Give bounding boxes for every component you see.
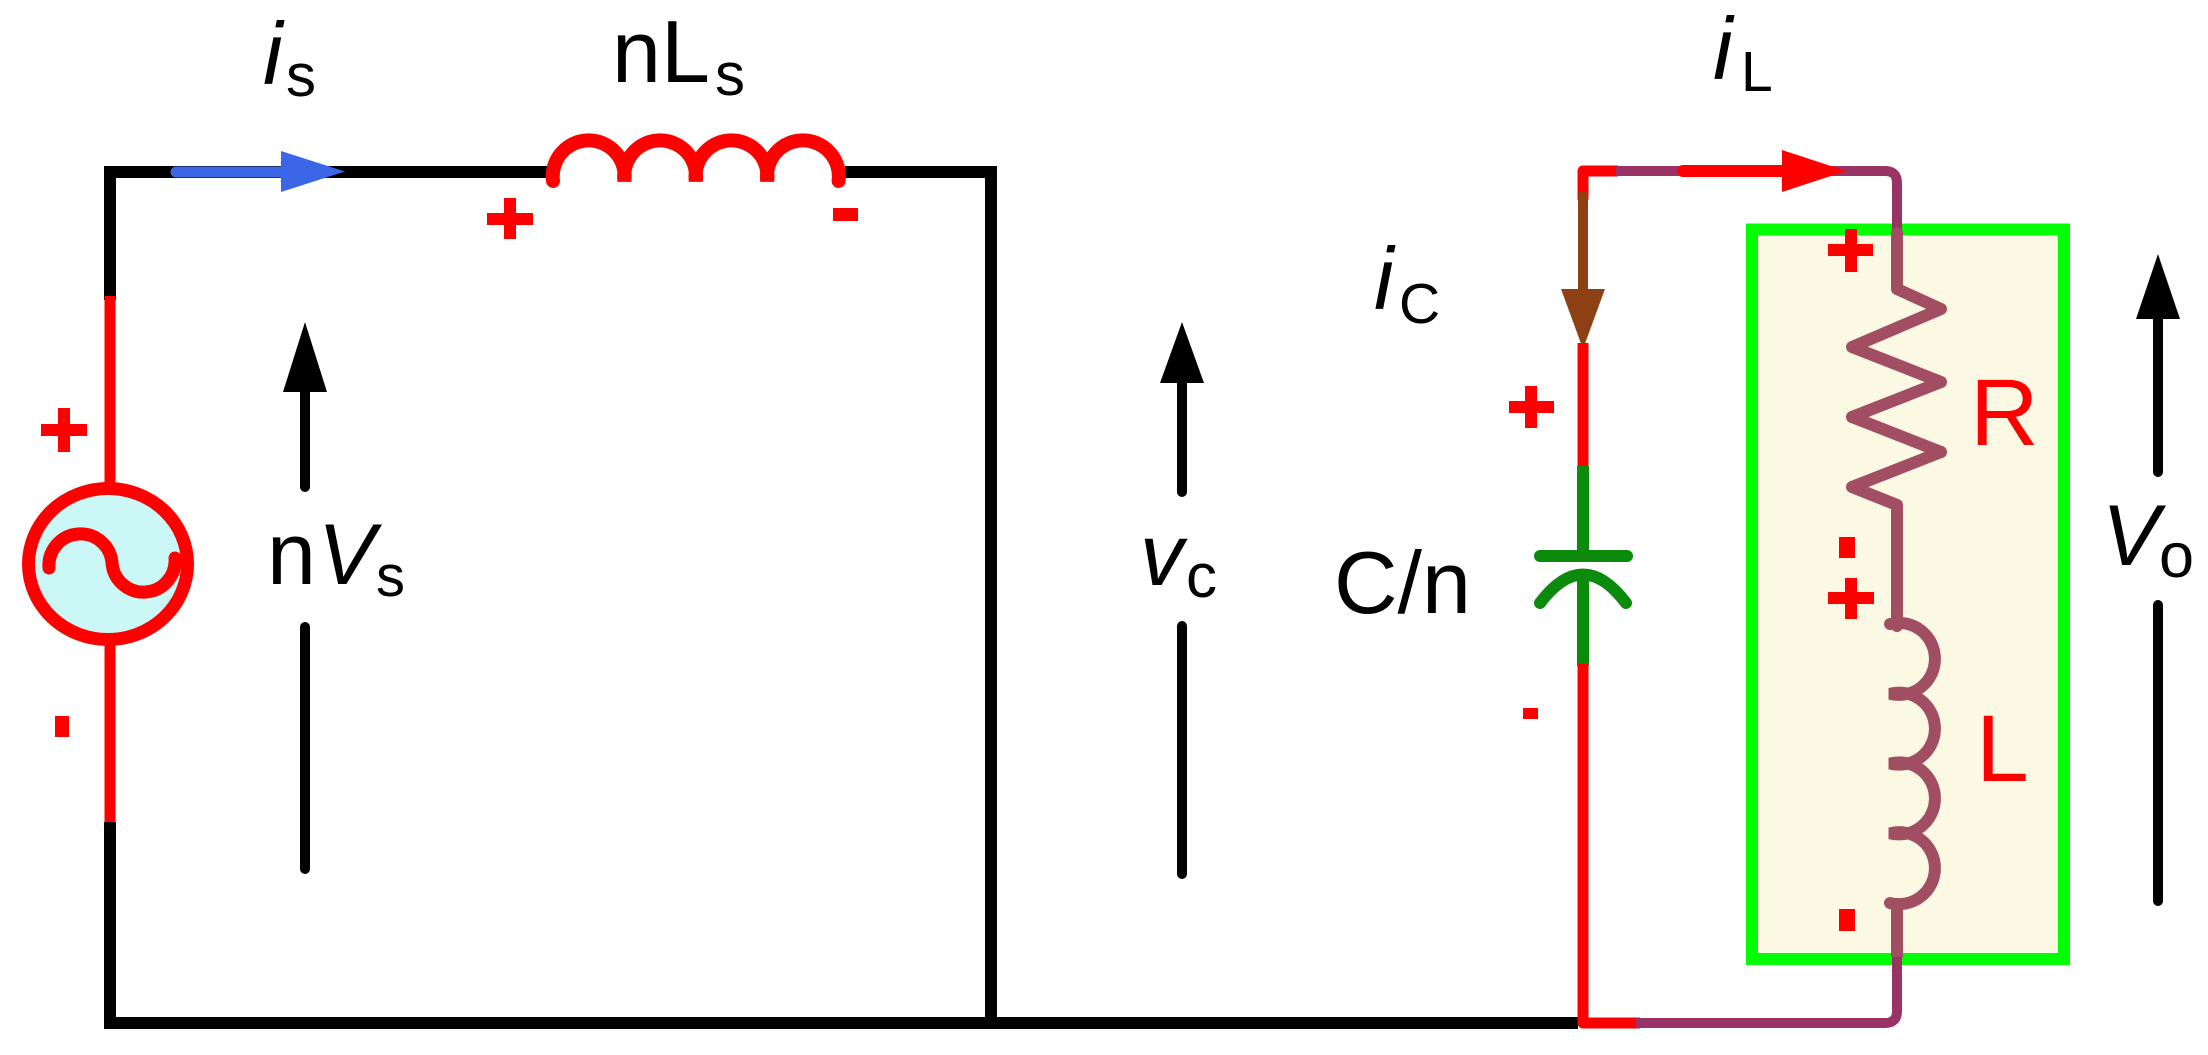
polarity - (L bottom) [1839,909,1855,931]
svg-text:C: C [1399,272,1440,336]
wire: red below capacitor to bottom [1583,664,1640,1023]
wire: left vertical red upper (to source) [105,296,116,488]
arrow V_o (black, up) [2153,317,2163,901]
source sine symbol [49,534,175,592]
svg-text:L: L [1976,696,2029,802]
svg-text:c: c [1186,542,1217,611]
polarity - (source) [55,716,69,737]
svg-text:C/n: C/n [1334,533,1471,632]
svg-text:s: s [715,41,745,108]
svg-text:i: i [1713,0,1735,98]
svg-text:v: v [1140,507,1188,604]
capacitor C/n (green) [1577,466,1589,551]
polarity - (capacitor) [1523,708,1538,719]
wire: red above capacitor [1578,343,1589,468]
wire: red elbow at i_C branch top [1583,171,1618,200]
wire: plum top run into box [1616,171,1897,235]
polarity - (inductor nLs right) [833,208,858,221]
svg-text:i: i [263,4,285,103]
svg-text:nL: nL [612,2,710,101]
resistor R (rosy zigzag) [1852,233,1941,626]
arrow i_C (brown, down) [1578,196,1588,291]
wire: inductor right to middle vertical (black) [845,172,991,1023]
svg-text:i: i [1374,229,1396,328]
wire: top-left horizontal + left vertical (black) [110,172,547,300]
svg-text:R: R [1970,360,2039,466]
wire: plum bottom run to box [1636,955,1897,1023]
load box (green rectangle with cream fill) [1752,230,2064,960]
inductor L (rosy coil) [1890,623,1935,904]
source V1 (AC source circle) [29,489,188,640]
polarity - (R bottom) [1839,537,1855,558]
arrow i_L (red, right) [1683,165,1784,177]
svg-text:s: s [286,42,316,109]
wire: left vertical black bottom + bottom horizontal [110,822,1578,1023]
arrow i_s (blue) [176,167,283,178]
svg-text:L: L [1741,40,1773,104]
polarity + (L top) [1828,578,1874,619]
svg-text:V: V [318,507,383,603]
svg-text:V: V [2102,488,2167,584]
wire: rosy lead bottom of coil [1891,899,1903,957]
arrow v_c (black, up) [1177,383,1187,874]
polarity + (R top) [1828,229,1873,272]
polarity + (source) [41,408,87,452]
svg-text:o: o [2159,521,2194,591]
svg-text:s: s [376,544,405,609]
polarity + (capacitor) [1509,386,1554,428]
polarity + (inductor nLs left) [487,198,533,239]
svg-text:n: n [267,504,316,603]
inductor nLs (red coil) [553,140,839,181]
arrow nVs (black, up) [300,390,310,869]
wire: left vertical red lower (from source) [105,640,116,826]
